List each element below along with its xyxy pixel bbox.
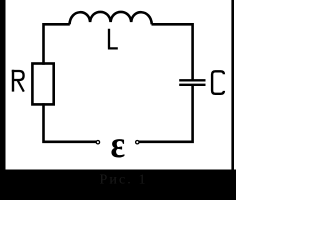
wire top-right segment bbox=[152, 24, 193, 80]
wire top-left segment bbox=[44, 24, 70, 65]
label C bbox=[212, 71, 224, 94]
label L bbox=[108, 29, 118, 49]
wire resistor to bottom bbox=[44, 103, 97, 142]
label R bbox=[12, 70, 24, 92]
svg-text:Рис. 1: Рис. 1 bbox=[100, 173, 148, 188]
resistor R1 bbox=[32, 64, 53, 105]
wire capacitor to bottom bbox=[139, 85, 193, 142]
capacitor C1 bbox=[179, 80, 205, 85]
terminal node 2 bbox=[136, 141, 139, 144]
inductor L1 bbox=[70, 12, 152, 24]
terminal node 1 bbox=[96, 141, 99, 144]
svg-text:ε: ε bbox=[111, 124, 126, 166]
